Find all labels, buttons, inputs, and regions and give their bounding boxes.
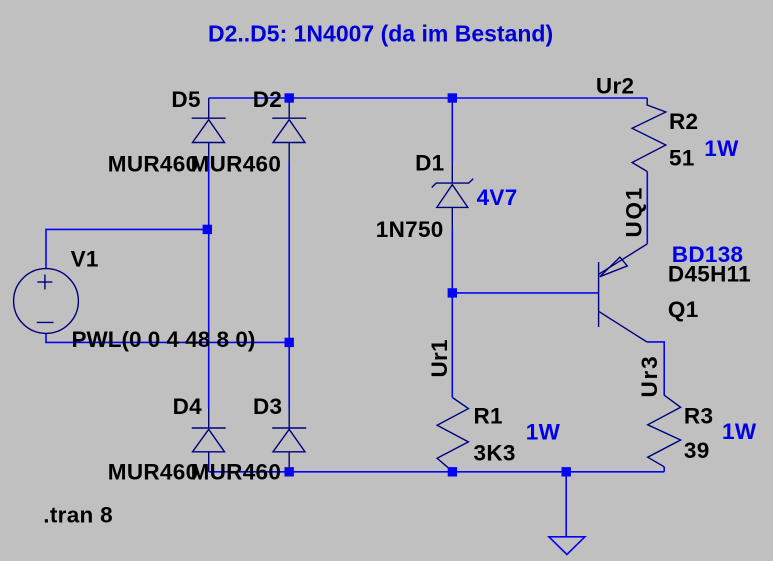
svg-text:UQ1: UQ1 — [622, 186, 647, 238]
label Q1 — [668, 297, 699, 322]
diode D5 — [192, 98, 226, 162]
value 39 of R3 — [684, 438, 710, 463]
label R3 — [684, 404, 713, 429]
value D45H11 of Q1 — [668, 262, 751, 287]
net label UQ1 — [622, 186, 647, 238]
node PWL D3 junction — [285, 338, 294, 347]
note 1W of R2 — [704, 136, 739, 161]
svg-text:Ur1: Ur1 — [427, 339, 452, 377]
svg-text:.tran 8: .tran 8 — [43, 502, 113, 527]
svg-text:1W: 1W — [722, 419, 757, 444]
wire R3 bottom lead — [663, 467, 665, 472]
transistor Q1 — [599, 244, 648, 342]
net label Ur3 — [637, 355, 662, 398]
value 1N750 of D1 — [376, 217, 444, 242]
svg-text:R2: R2 — [669, 109, 698, 134]
svg-text:D3: D3 — [253, 394, 282, 419]
value 51 of R2 — [669, 146, 695, 171]
ground — [549, 537, 585, 555]
value PWL of V1 — [72, 327, 256, 352]
diode D2 — [272, 98, 306, 162]
wire V1 minus PWL rail — [46, 334, 289, 343]
svg-text:D5: D5 — [171, 87, 200, 112]
svg-text:D1: D1 — [415, 151, 444, 176]
resistor R1 — [437, 398, 468, 472]
svg-text:D45H11: D45H11 — [668, 262, 751, 287]
wire collector to R3 — [647, 342, 664, 395]
wire left diode column upper — [208, 162, 210, 408]
svg-text:PWL(0 0 4 48 8 0): PWL(0 0 4 48 8 0) — [72, 327, 256, 352]
svg-text:Q1: Q1 — [668, 297, 699, 322]
wire middle column D1 top — [451, 98, 453, 163]
node D1 top junction — [448, 93, 457, 102]
resistor R3 — [648, 395, 681, 467]
value MUR460 of D5 — [108, 151, 199, 176]
note 1W of R3 — [722, 419, 757, 444]
net label Ur2 — [596, 73, 634, 98]
wire base of Q1 — [452, 292, 598, 294]
svg-text:Ur3: Ur3 — [637, 355, 662, 398]
wire V1 plus to bridge — [46, 229, 207, 268]
spice directive .tran 8 — [43, 502, 113, 527]
diode D3 — [272, 408, 306, 472]
svg-text:1W: 1W — [704, 136, 739, 161]
note 1W of R1 — [526, 420, 561, 445]
svg-text:D2..D5: 1N4007 (da im Bestand): D2..D5: 1N4007 (da im Bestand) — [208, 20, 553, 46]
value 3K3 of R1 — [474, 441, 516, 466]
value MUR460 of D2 — [191, 151, 282, 176]
wire bottom rail — [209, 471, 665, 473]
svg-text:51: 51 — [669, 146, 695, 171]
note BD138 — [672, 242, 744, 267]
svg-text:R3: R3 — [684, 404, 713, 429]
value MUR460 of D3 — [191, 460, 282, 485]
svg-text:MUR460: MUR460 — [108, 151, 199, 176]
node D1 bottom junction — [448, 288, 457, 297]
svg-text:3K3: 3K3 — [474, 441, 516, 466]
wire R2 to emitter — [646, 172, 648, 244]
label D3 — [253, 394, 282, 419]
svg-text:39: 39 — [684, 438, 710, 463]
diode D4 — [192, 408, 226, 472]
node ground junction — [562, 467, 571, 476]
svg-text:R1: R1 — [474, 403, 503, 428]
label R2 — [669, 109, 698, 134]
node D3 bottom junction — [285, 467, 294, 476]
svg-text:MUR460: MUR460 — [191, 151, 282, 176]
label D2 — [253, 87, 282, 112]
value 4V7 — [477, 185, 518, 210]
wire middle column D1 to R1 — [451, 227, 453, 397]
zener diode D1 — [432, 163, 474, 227]
wire top rail — [209, 97, 648, 99]
resistor R2 — [632, 98, 666, 172]
svg-text:1W: 1W — [526, 420, 561, 445]
label D1 — [415, 151, 444, 176]
label D4 — [173, 394, 203, 419]
value MUR460 of D4 — [108, 460, 199, 485]
title comment text — [208, 20, 553, 46]
voltage source V1 — [14, 269, 79, 334]
label D5 — [171, 87, 200, 112]
wire ground stem — [565, 472, 567, 537]
svg-text:Ur2: Ur2 — [596, 73, 634, 98]
wire right diode column upper — [288, 162, 290, 408]
svg-text:MUR460: MUR460 — [108, 460, 199, 485]
svg-text:1N750: 1N750 — [376, 217, 444, 242]
node D2 top junction — [285, 93, 294, 102]
svg-text:D4: D4 — [173, 394, 203, 419]
label V1 — [71, 247, 99, 272]
svg-text:D2: D2 — [253, 87, 282, 112]
net label Ur1 — [427, 339, 452, 377]
svg-text:4V7: 4V7 — [477, 185, 518, 210]
node V1 plus junction — [203, 225, 212, 234]
svg-text:V1: V1 — [71, 247, 99, 272]
label R1 — [474, 403, 503, 428]
node R1 bottom junction — [448, 467, 457, 476]
svg-text:MUR460: MUR460 — [191, 460, 282, 485]
